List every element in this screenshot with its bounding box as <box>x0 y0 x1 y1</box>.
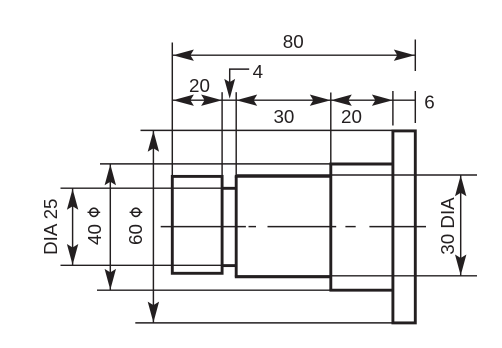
svg-text:DIA 25: DIA 25 <box>40 199 61 255</box>
svg-text:4: 4 <box>253 61 263 82</box>
svg-text:20: 20 <box>341 106 362 127</box>
svg-text:6: 6 <box>424 91 434 112</box>
svg-text:30: 30 <box>273 106 294 127</box>
svg-text:20: 20 <box>189 75 210 96</box>
svg-text:40: 40 <box>84 224 105 245</box>
svg-text:30 DIA: 30 DIA <box>437 197 458 255</box>
svg-text:60: 60 <box>125 224 146 245</box>
svg-text:80: 80 <box>283 31 304 52</box>
